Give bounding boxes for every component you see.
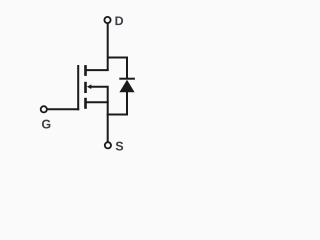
transistor Q1 body arrow — [87, 84, 91, 89]
node D terminal circle — [104, 17, 110, 23]
label S — [116, 142, 123, 151]
wire source horizontal — [86, 101, 109, 103]
diode D1 triangle — [119, 80, 134, 93]
wire drain horizontal to MOSFET drain bar — [86, 69, 109, 71]
wire drain vertical from D to corner — [107, 23, 109, 70]
transistor Q1 source channel bar — [84, 98, 87, 109]
wire gate from G — [47, 108, 79, 110]
wire source vertical to S — [107, 102, 109, 142]
transistor Q1 gate line — [77, 65, 79, 110]
diode D1 cathode wire — [126, 57, 128, 79]
label G — [42, 120, 50, 129]
wire body to source junction — [91, 87, 108, 103]
node S terminal circle — [105, 142, 111, 148]
diode D1 anode wire — [107, 92, 127, 115]
transistor Q1 body channel bar — [84, 82, 87, 93]
node G terminal circle — [41, 106, 47, 112]
label D — [115, 17, 123, 26]
transistor Q1 drain channel bar — [84, 65, 87, 76]
diode D1 cathode bar — [119, 78, 135, 80]
wire branch to body diode cathode — [108, 57, 127, 59]
